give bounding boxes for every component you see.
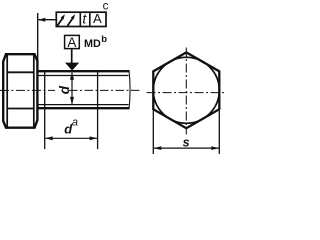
total runout symbol arrow 1 <box>57 19 62 26</box>
svg-text:A: A <box>93 11 102 26</box>
head facet line upper <box>7 71 34 73</box>
hex head outline (side view) <box>3 54 37 128</box>
thread root line top <box>37 75 128 77</box>
feature control frame <box>56 12 106 26</box>
dimension d^a arrow left <box>45 136 53 140</box>
leader arrow <box>38 18 45 22</box>
dimension d arrow down <box>70 97 74 104</box>
svg-text:c: c <box>103 1 109 13</box>
dimension s extension line left <box>152 111 154 155</box>
thread root line bottom <box>37 104 128 106</box>
dimension d^a line <box>45 137 97 139</box>
svg-text:d: d <box>57 85 72 94</box>
shank outline bottom <box>37 107 129 109</box>
leader line from frame <box>39 19 57 21</box>
svg-text:A: A <box>67 35 76 50</box>
head chamfer line right <box>33 54 35 128</box>
break line at shank end <box>129 70 130 109</box>
dimension s line <box>154 147 219 149</box>
dimension d^a arrow right <box>90 136 98 140</box>
total runout symbol arrow 2 <box>68 19 73 26</box>
dimension d^a extension line left <box>44 109 46 149</box>
dimension d arrow up <box>70 72 74 79</box>
frame divider 2 <box>89 12 91 26</box>
svg-text:MD: MD <box>84 38 101 50</box>
hexagon end view <box>153 52 219 128</box>
datum stem <box>71 49 73 64</box>
chamfer circle <box>153 57 219 123</box>
dimension d vertical line <box>71 72 73 104</box>
dimension s extension line right <box>218 111 220 155</box>
end view vertical centerline <box>185 48 187 135</box>
hexagon chamfer arcs <box>153 52 219 128</box>
head chamfer line left <box>6 54 8 128</box>
centerline bolt axis <box>0 89 55 91</box>
datum triangle <box>65 63 79 71</box>
bearing face extension line <box>37 13 39 62</box>
svg-text:s: s <box>183 135 190 149</box>
dimension d^a extension line right <box>97 70 99 149</box>
head facet line lower <box>7 108 34 110</box>
datum A box <box>65 35 80 48</box>
shank outline top <box>37 70 129 72</box>
svg-text:a: a <box>72 116 78 128</box>
dimension s arrow left <box>154 146 162 150</box>
thread boundary line left <box>44 70 46 109</box>
frame divider 1 <box>79 12 81 26</box>
dimension s arrow right <box>211 146 219 150</box>
svg-text:b: b <box>101 34 107 45</box>
end view horizontal centerline <box>147 92 226 94</box>
